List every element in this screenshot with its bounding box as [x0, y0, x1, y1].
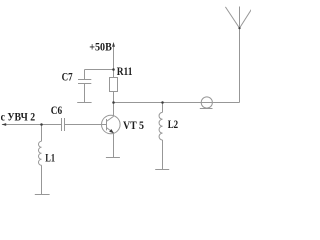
wire L2 top lead [162, 103, 164, 113]
transistor VT5 body circle [102, 115, 121, 134]
wire +50V lead [113, 47, 115, 70]
connector X1 shield bar [200, 108, 213, 110]
connector X1 circle [201, 97, 212, 108]
node L2 tap [161, 101, 164, 104]
svg-text:L2: L2 [168, 117, 178, 131]
node L1 tap [40, 123, 43, 126]
wire L1 top lead [41, 125, 43, 142]
ground for emitter [106, 157, 120, 159]
svg-text:L1: L1 [45, 150, 55, 164]
capacitor C6 [62, 118, 65, 131]
inductor L2 [159, 112, 162, 140]
svg-text:с УВЧ 2: с УВЧ 2 [1, 110, 36, 124]
capacitor C7 [78, 80, 91, 84]
wire C7 bottom lead [84, 84, 86, 103]
wire input from UHF [2, 124, 62, 126]
node junction2 [112, 101, 115, 104]
wire main horizontal bus [114, 102, 240, 104]
svg-text:R11: R11 [117, 64, 133, 78]
wire C6 to base [65, 124, 107, 126]
transistor VT5 emitter arrow [109, 129, 114, 133]
ground for L1 [35, 194, 50, 196]
terminal arrow +50V [112, 42, 115, 47]
resistor R11 [110, 78, 118, 92]
ground for L2 [155, 169, 169, 171]
svg-text:C6: C6 [51, 103, 62, 117]
wire L1 bottom lead [41, 165, 43, 194]
transistor VT5 collector diagonal [107, 116, 114, 121]
node junction1 [112, 68, 115, 71]
wire emitter lead [113, 133, 115, 158]
wire junction1 to C7 [85, 69, 114, 71]
antenna WA1 right arm [240, 7, 254, 28]
arrow to UHF input [2, 123, 7, 126]
wire C7 top lead [84, 70, 86, 80]
inductor L1 [39, 141, 42, 165]
antenna WA1 mast [239, 7, 241, 103]
svg-text:C7: C7 [62, 70, 73, 84]
antenna WA1 left arm [225, 7, 239, 28]
wire collector lead [113, 103, 115, 117]
node antenna fork [238, 27, 240, 29]
wire L2 bottom lead [162, 140, 164, 170]
transistor VT5 emitter diagonal [107, 128, 114, 133]
svg-text:VT 5: VT 5 [123, 118, 144, 132]
wire R11 bottom lead [113, 92, 115, 103]
svg-text:+50В: +50В [89, 39, 112, 53]
ground for C7 [77, 102, 91, 104]
wire R11 top lead [113, 70, 115, 78]
transistor VT5 base bar [106, 119, 108, 130]
